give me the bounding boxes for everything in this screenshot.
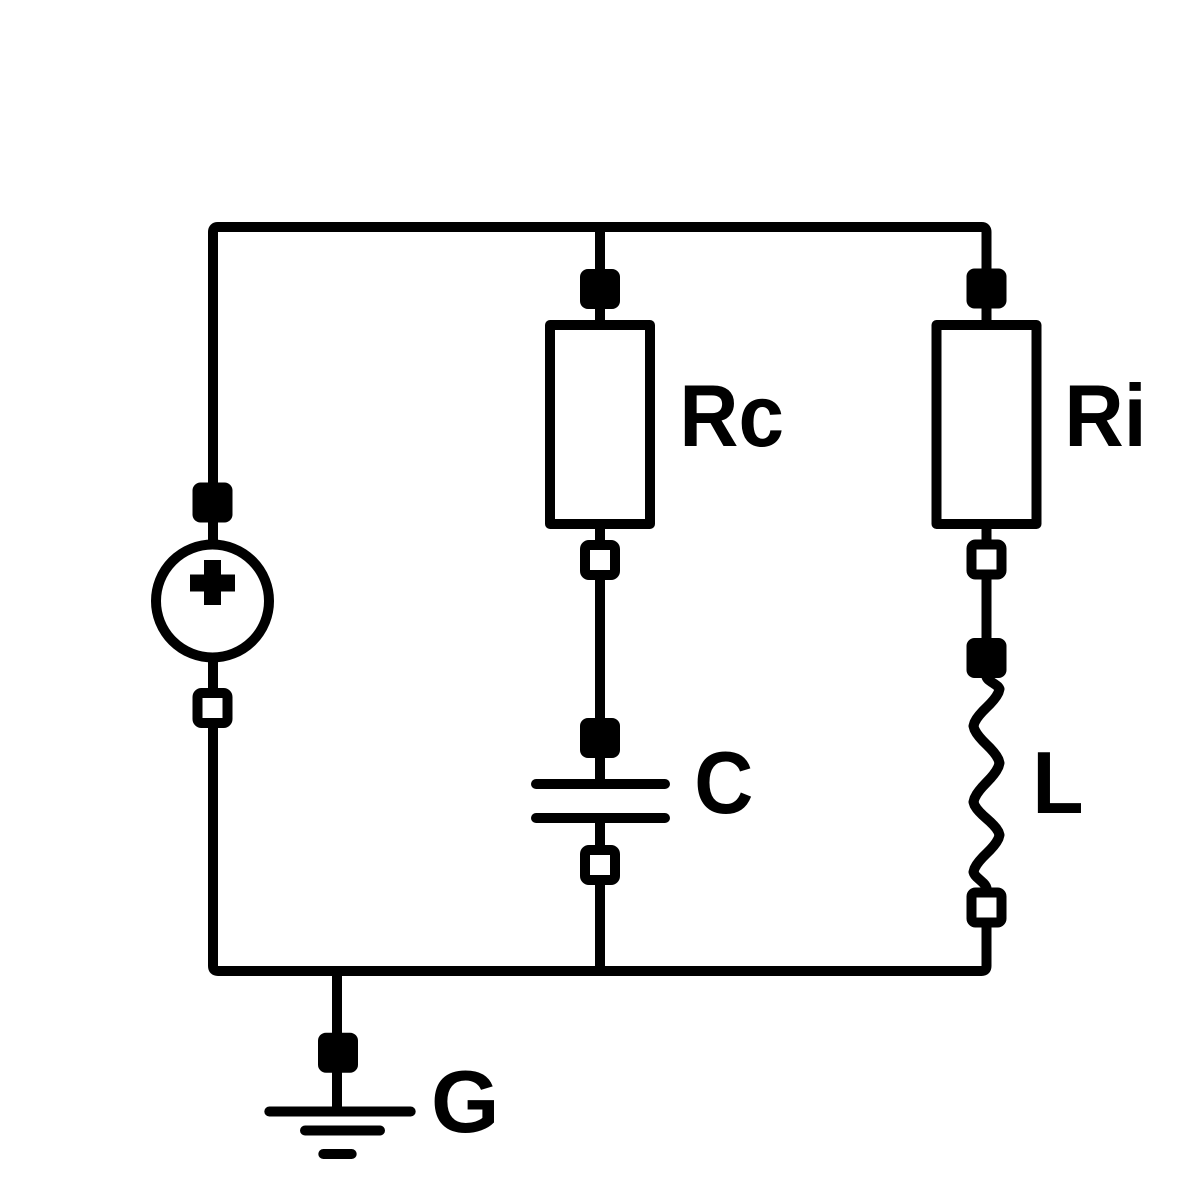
junction Ri top (filled): [967, 269, 1007, 309]
inductor L: [974, 677, 1000, 888]
voltage source: [156, 545, 269, 658]
capacitor C: [536, 784, 665, 818]
svg-text:G: G: [431, 1052, 499, 1151]
svg-text:Rc: Rc: [679, 367, 784, 465]
junction C top (filled): [580, 718, 620, 758]
junction L top (filled): [967, 638, 1007, 678]
label C: [694, 734, 753, 832]
wire middle branch upper (Rc leg): [595, 227, 605, 786]
label Rc: [679, 367, 784, 465]
label G: [431, 1052, 499, 1151]
resistor Rc: [550, 325, 650, 524]
terminal Ri bottom (open): [972, 545, 1002, 575]
resistor Ri: [937, 325, 1037, 524]
label Ri: [1064, 367, 1146, 465]
junction Rc top (filled): [580, 269, 620, 309]
terminal L bottom (open): [972, 893, 1002, 923]
terminal source bottom (open): [198, 693, 228, 723]
junction ground (filled): [318, 1033, 358, 1073]
junction source top (filled): [193, 483, 233, 523]
wire ground stem: [332, 966, 342, 1112]
ground G: [269, 1112, 410, 1155]
terminal C bottom (open): [585, 850, 615, 880]
svg-text:L: L: [1032, 734, 1083, 832]
wire outer loop (left branch, top rail, bottom rail, right branch stubs): [213, 227, 987, 971]
svg-text:C: C: [694, 734, 753, 832]
svg-text:Ri: Ri: [1064, 367, 1146, 465]
terminal Rc bottom (open): [585, 545, 615, 575]
wire middle branch lower (C leg): [595, 816, 605, 971]
label L: [1032, 734, 1083, 832]
